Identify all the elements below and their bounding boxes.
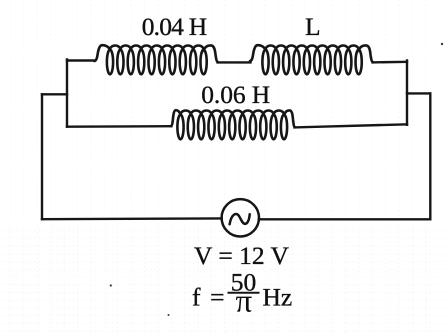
stray scan speck left of equation: [110, 284, 112, 286]
AC source V1 (circle): [222, 199, 259, 236]
inductor L1 0.04 H (humps): [95, 45, 219, 62]
wire: top branch right segment (L to right junction): [373, 61, 407, 64]
wire: right junction vertical bar: [406, 61, 408, 125]
inductor L2 L (loops): [262, 50, 361, 75]
inductor L2 L (humps): [250, 45, 373, 62]
wire: middle branch right segment (0.06 H to right junction): [295, 124, 408, 127]
wire: top branch between 0.04 H and L: [218, 61, 251, 62]
svg-text:L: L: [305, 12, 321, 41]
stray scan speck near top right: [441, 43, 443, 45]
svg-text:Hz: Hz: [263, 283, 293, 312]
wire: top branch left segment (left junction to L1): [67, 59, 95, 61]
svg-text:0.06 H: 0.06 H: [201, 80, 270, 109]
wire: left junction vertical bar: [66, 60, 68, 127]
fraction bar of f = 50/pi: [228, 292, 260, 294]
wire: middle branch left segment (left junction to 0.06 H): [67, 125, 171, 128]
wire: left outer vertical: [41, 94, 43, 219]
stray scan speck below equation: [168, 314, 170, 316]
inductor L3 0.06 H (humps): [171, 110, 295, 127]
svg-text:V = 12 V: V = 12 V: [194, 241, 290, 270]
AC source V1 (sine symbol): [230, 214, 250, 224]
svg-text:f =: f =: [192, 283, 226, 312]
wire: right outer vertical: [429, 93, 431, 219]
svg-text:0.04 H: 0.04 H: [142, 12, 207, 41]
wire: bottom left segment (to AC source): [42, 217, 222, 220]
wire: right stub from outer loop to right junction: [407, 92, 430, 94]
wire: bottom right segment (AC source to right outer corner): [259, 218, 431, 220]
inductor L3 0.06 H (loops): [177, 115, 287, 140]
inductor L1 0.04 H (loops): [107, 50, 207, 75]
wire: left stub from outer loop to left junction: [42, 93, 67, 95]
svg-text:π: π: [235, 284, 252, 320]
